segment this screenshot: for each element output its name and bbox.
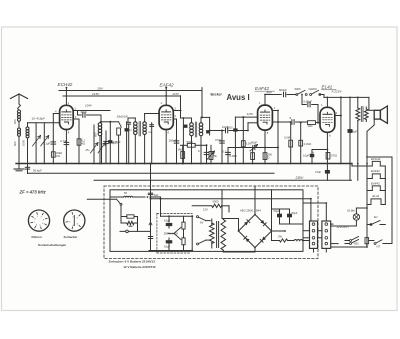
- svg-text:EAF42: EAF42: [371, 169, 380, 173]
- svg-text:20kΩ/1W: 20kΩ/1W: [117, 114, 129, 118]
- cap 0.1 avc: [227, 148, 229, 164]
- wire: [18, 122, 20, 129]
- secondary top wire: [221, 190, 223, 219]
- svg-text:4,7µF: 4,7µF: [60, 139, 67, 143]
- filter choke: [294, 239, 303, 242]
- IF transformer B core: [138, 122, 140, 136]
- svg-text:5000: 5000: [227, 127, 233, 130]
- svg-text:100pF: 100pF: [169, 139, 177, 143]
- bridge diode SW: [246, 238, 250, 242]
- filter cap 50uF B: [289, 209, 291, 224]
- cap 500pF: [283, 92, 285, 97]
- svg-text:50 kpF: 50 kpF: [33, 168, 42, 172]
- svg-text:8µF: 8µF: [353, 130, 358, 134]
- wire grid cap 30pF: [77, 111, 79, 116]
- IF B trimmer cap: [127, 121, 131, 123]
- cap 0.1uF det: [206, 145, 208, 163]
- supply top wire: [111, 196, 123, 198]
- switch Ez: [367, 224, 371, 226]
- vibrator resistor lower: [182, 238, 185, 245]
- resistor 0.1M: [300, 122, 302, 164]
- svg-text:115V: 115V: [247, 112, 254, 116]
- vibrator cap 63uF lower: [168, 238, 170, 240]
- resistor 0.5M: [290, 122, 292, 164]
- svg-text:Sockelschaltungen: Sockelschaltungen: [38, 243, 66, 247]
- IF transformer B primary: [128, 117, 135, 119]
- wire to padder: [101, 121, 110, 123]
- svg-text:28V: 28V: [97, 87, 104, 91]
- svg-text:GRAM: GRAM: [309, 87, 318, 91]
- detector out wire: [209, 130, 211, 132]
- return bus 2: [28, 172, 275, 174]
- battery lead stub: [87, 198, 116, 200]
- svg-text:0,05µF: 0,05µF: [304, 99, 313, 103]
- svg-text:0,1MΩ: 0,1MΩ: [304, 143, 312, 146]
- svg-text:ECH42: ECH42: [371, 157, 381, 161]
- svg-text:12 V Batterie 221/NT12: 12 V Batterie 221/NT12: [123, 265, 156, 269]
- box bottom stub: [313, 248, 315, 252]
- cap 47pF: [221, 131, 223, 164]
- tube EAF42 no1: [159, 105, 173, 129]
- tube EAF42 no2: [258, 105, 273, 130]
- pin 1 anode lead: [65, 88, 67, 106]
- svg-text:30pF: 30pF: [81, 110, 88, 114]
- tube ECH42: [60, 105, 74, 129]
- wire to output rail A225V: [320, 94, 324, 96]
- svg-text:Zerhacker: 6 V Batterie 221/6V: Zerhacker: 6 V Batterie 221/6V12: [109, 260, 156, 264]
- pin 2 lead: [73, 110, 110, 112]
- screen grid wire: [335, 115, 341, 117]
- left branch bottom wire: [149, 250, 192, 252]
- bridge east wire: [272, 230, 286, 232]
- svg-text:50: 50: [124, 191, 127, 195]
- svg-text:0,1: 0,1: [198, 149, 202, 153]
- resistor 0.1M: [78, 119, 80, 164]
- svg-text:Ω: Ω: [268, 155, 270, 159]
- secondary bottom wire: [222, 250, 224, 252]
- grid coupling wire: [272, 121, 290, 123]
- rail drop to detector coil: [201, 88, 203, 118]
- svg-text:0,5M: 0,5M: [284, 136, 291, 140]
- heater ECH42: [367, 165, 372, 167]
- svg-text:EL41: EL41: [322, 84, 333, 89]
- svg-text:2W: 2W: [278, 234, 282, 238]
- bus jog to heater row: [351, 164, 353, 167]
- cap 4.7uF on cathode: [64, 141, 69, 143]
- tube EL41: [320, 107, 335, 132]
- heater rail right outer: [391, 157, 393, 243]
- IF C secondary outer: [201, 116, 210, 118]
- svg-text:EAF42: EAF42: [371, 181, 380, 185]
- rectifier bridge: [239, 215, 272, 248]
- antenna coil L1: [17, 110, 20, 113]
- audio out wire: [265, 94, 281, 96]
- power feed to supply box: [150, 164, 152, 190]
- dropper resistor zigzag: [127, 221, 134, 224]
- junction dots: [18, 163, 20, 165]
- svg-text:63µF: 63µF: [164, 219, 171, 223]
- IF C primary: [191, 118, 193, 123]
- svg-text:170Ω: 170Ω: [331, 154, 338, 158]
- return bus 3: [94, 179, 352, 181]
- AVC wire: [228, 147, 278, 149]
- speaker wires: [368, 97, 370, 110]
- grid resistor 1k: [308, 121, 316, 125]
- cap on trunk branch: [148, 236, 152, 238]
- vibrator feed vertical: [160, 197, 162, 216]
- svg-text:0,3MΩ: 0,3MΩ: [230, 155, 238, 158]
- coupling winding L3: [27, 123, 29, 127]
- output transformer secondary: [364, 109, 368, 120]
- svg-text:4Ω: 4Ω: [82, 142, 85, 146]
- cathode lead: [264, 130, 266, 163]
- IF C core: [194, 122, 196, 137]
- grid input wire: [28, 122, 60, 124]
- svg-text:600: 600: [13, 119, 17, 124]
- bridge diode SE: [262, 237, 266, 241]
- cap 10pF: [225, 128, 227, 133]
- svg-text:215V: 215V: [172, 92, 179, 96]
- IF C secondary: [200, 117, 202, 122]
- svg-text:AEG 250/0,1 B44: AEG 250/0,1 B44: [240, 209, 261, 213]
- svg-text:63µF: 63µF: [164, 245, 171, 249]
- anode lead: [326, 97, 328, 107]
- cap 47uF below bus: [326, 164, 328, 181]
- cathode resistor 170: [326, 153, 330, 160]
- vibrator socket diagram: [64, 210, 85, 231]
- svg-text:600: 600: [13, 141, 17, 146]
- svg-text:40pF: 40pF: [251, 141, 257, 145]
- svg-text:ECH42: ECH42: [58, 82, 73, 87]
- padder cap 475pF: [109, 122, 111, 164]
- decoupling line: [349, 97, 351, 180]
- trimmer cap 40pF: [252, 145, 254, 149]
- svg-text:NT: NT: [377, 245, 381, 249]
- speaker: [374, 110, 380, 119]
- svg-text:500pF: 500pF: [279, 88, 287, 92]
- svg-text:Sk.Bel.: Sk.Bel.: [347, 209, 356, 213]
- svg-text:475pF: 475pF: [113, 140, 121, 144]
- heater EAF42 no2: [367, 190, 372, 192]
- svg-text:50µF: 50µF: [274, 209, 280, 213]
- svg-text:5000: 5000: [295, 87, 301, 91]
- wire lamp to plug: [331, 225, 357, 227]
- heater rail top: [367, 156, 392, 158]
- switch and resistor 20k 1W: [110, 121, 118, 123]
- resistor 0.1M branch: [242, 117, 244, 163]
- supply inner box: [110, 190, 303, 252]
- antenna coil L2: [18, 128, 21, 131]
- bridge diode NE: [260, 220, 264, 224]
- anode lead: [165, 88, 167, 106]
- anode lead up 88V: [264, 95, 266, 106]
- vibrator right rail: [191, 216, 193, 250]
- wire 115V: [235, 116, 257, 118]
- dial lamp: [353, 214, 359, 220]
- svg-text:1000: 1000: [22, 139, 26, 146]
- transformer feed resistor: [192, 205, 212, 207]
- svg-text:0,1: 0,1: [223, 150, 227, 153]
- svg-text:47µF: 47µF: [315, 170, 322, 174]
- cathode bypass 10uF: [312, 149, 327, 151]
- heater EL41: [367, 204, 371, 206]
- supply trunk from bus: [151, 196, 161, 198]
- output transformer core: [360, 107, 362, 122]
- vibrator top wire: [161, 215, 193, 217]
- cap 0.1uF: [52, 114, 54, 164]
- transformer secondary winding: [221, 220, 226, 251]
- AVC resistor 5000: [181, 144, 188, 146]
- oscillator trimmer 1: [93, 125, 95, 164]
- svg-text:EAF42: EAF42: [160, 82, 174, 87]
- padder cap 475pF: [105, 131, 107, 164]
- coupling cap 8000pF: [291, 120, 293, 125]
- switch 5000: [296, 94, 298, 96]
- cap 1nF: [126, 122, 128, 164]
- filter resistor: [280, 239, 288, 242]
- svg-text:230V: 230V: [295, 176, 305, 180]
- plug feed top wires: [325, 203, 327, 221]
- svg-text:Röhren: Röhren: [32, 235, 42, 239]
- bridge output top: [254, 190, 256, 215]
- pin 2 lead: [173, 110, 181, 112]
- resistor 200: [263, 153, 267, 160]
- tap switch lower: [197, 243, 199, 245]
- fuse coil: [124, 195, 133, 198]
- heater chain bottom wire: [331, 246, 367, 248]
- mains switch blade: [117, 199, 121, 203]
- IF transformer B secondary: [143, 122, 147, 126]
- dropper resistor box: [120, 205, 122, 216]
- svg-text:ZF = 473 kHz: ZF = 473 kHz: [19, 190, 47, 195]
- wire right branch: [277, 111, 279, 164]
- svg-text:ZERH. L G8: ZERH. L G8: [164, 231, 179, 235]
- plug wires: [318, 230, 322, 232]
- cap 3uF: [150, 196, 152, 198]
- filter cap 50uF A: [279, 209, 281, 224]
- svg-text:EL41: EL41: [373, 194, 380, 198]
- svg-text:3µF: 3µF: [154, 193, 159, 197]
- low tension wire: [120, 230, 151, 232]
- wire to vibrator feed: [134, 216, 138, 218]
- svg-text:Ez: Ez: [374, 215, 378, 219]
- svg-text:6V: 6V: [200, 220, 204, 224]
- plug strip 2: [322, 221, 331, 248]
- svg-text:600: 600: [94, 132, 98, 137]
- resistor 0.3M: [252, 148, 254, 164]
- pin 3 lead: [73, 118, 79, 120]
- bottom switch NT: [345, 243, 350, 245]
- bridge diode NW: [244, 222, 248, 226]
- svg-text:47pF: 47pF: [215, 138, 221, 142]
- vibrator cap 63uF upper: [168, 216, 170, 222]
- rail drop to IF C: [180, 96, 182, 118]
- tube socket diagram: [28, 210, 49, 231]
- svg-text:1kΩ: 1kΩ: [308, 124, 313, 128]
- heater ladder left rail: [366, 157, 368, 247]
- rail junction dots: [66, 87, 68, 89]
- svg-text:Avus I: Avus I: [227, 93, 250, 102]
- wire bus to box: [254, 186, 256, 190]
- rail 215V: [63, 95, 181, 97]
- svg-text:5000: 5000: [213, 200, 219, 204]
- relay coil arrow: [150, 222, 152, 234]
- rail 285V: [59, 90, 202, 92]
- svg-text:50µF: 50µF: [292, 211, 298, 215]
- pin lead right lower: [173, 118, 176, 120]
- chassis bus: [16, 163, 352, 165]
- supply output wires: [280, 223, 290, 225]
- tuning cap C1: [35, 123, 37, 164]
- svg-text:0,1µF: 0,1µF: [43, 142, 50, 146]
- tuning cap C2: [43, 123, 45, 164]
- IF C primary outer lead: [182, 118, 184, 128]
- pin 8 cathode lead: [65, 130, 67, 164]
- svg-text:12V: 12V: [203, 208, 208, 212]
- switch GRAM: [310, 94, 312, 96]
- IF B secondary trimmer: [151, 123, 153, 164]
- cap 5000 branch: [234, 117, 236, 163]
- heater EAF42 no1: [367, 178, 372, 180]
- supply distribution wire: [150, 198, 152, 200]
- heater ladder right rail: [384, 166, 386, 205]
- plug strip 1: [310, 221, 318, 248]
- cathode lead: [326, 132, 328, 163]
- transformer primary winding: [210, 223, 215, 244]
- svg-text:104V: 104V: [85, 103, 93, 107]
- svg-text:45÷: 45÷: [86, 148, 91, 152]
- ground: [18, 164, 20, 170]
- svg-text:5000: 5000: [187, 140, 194, 144]
- oscillator coil: [100, 121, 102, 123]
- oscillator trimmer 2: [101, 125, 103, 164]
- cap 0.05uF TA: [302, 104, 306, 106]
- svg-text:15–415pF: 15–415pF: [32, 117, 46, 121]
- cathode lead: [165, 130, 167, 164]
- svg-text:215V: 215V: [91, 92, 100, 96]
- svg-text:10µF: 10µF: [303, 154, 310, 158]
- svg-text:25k: 25k: [213, 154, 218, 158]
- vibrator resistor upper: [182, 222, 185, 229]
- svg-text:Zerhacker: Zerhacker: [64, 235, 79, 239]
- volume pot 25k: [210, 145, 212, 163]
- pin 4 lead: [53, 113, 59, 115]
- IF C secondary cap: [206, 130, 210, 133]
- filter output wires: [272, 208, 290, 210]
- vibrator dashed screen: [156, 214, 158, 253]
- svg-text:NS0: NS0: [354, 244, 359, 246]
- output transformer primary: [357, 97, 359, 108]
- cap 50kpF: [25, 166, 29, 168]
- transformer core: [216, 222, 218, 248]
- cap 8uF: [348, 129, 353, 133]
- antenna fuse link: [18, 104, 21, 110]
- tap switch upper: [197, 216, 199, 218]
- cap 100pF: [176, 119, 178, 164]
- svg-text:1MΩ: 1MΩ: [178, 147, 184, 151]
- pin lead right: [272, 110, 278, 112]
- antenna: [11, 94, 20, 99]
- battery supply dashed enclosure: [104, 186, 318, 259]
- resistor 1M: [182, 145, 184, 163]
- svg-text:1W: 1W: [56, 154, 60, 158]
- svg-text:Becker: Becker: [211, 93, 223, 97]
- resistor 20k 1W input: [51, 152, 55, 157]
- vibrator reed: [174, 227, 181, 239]
- output return line: [340, 97, 342, 163]
- IF C fixed cap: [184, 125, 188, 128]
